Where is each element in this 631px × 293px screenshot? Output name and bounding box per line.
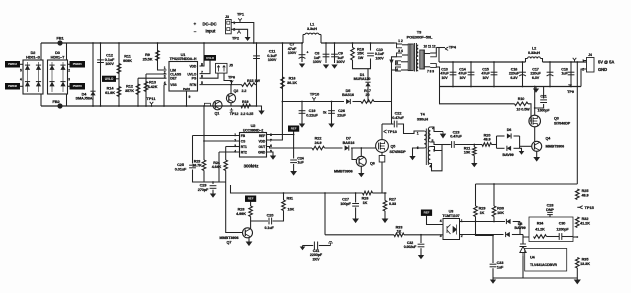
wire R23 column bbox=[203, 106, 205, 160]
D5 label bbox=[342, 89, 354, 97]
inductor L1 bbox=[305, 33, 319, 34]
svg-text:3: 3 bbox=[68, 78, 70, 82]
svg-text:PwPd: PwPd bbox=[183, 87, 190, 91]
ground below C8 bbox=[323, 65, 329, 69]
wire R28 to Q7 bbox=[250, 217, 252, 223]
U3 inner transistor and LED bbox=[447, 225, 457, 235]
wire T4 pin2 to ground bbox=[430, 127, 443, 132]
wire C25 bottom bbox=[193, 170, 205, 183]
UVLO net label bbox=[103, 76, 116, 81]
wire from bridge D3 to spare-2 box bbox=[68, 85, 71, 87]
svg-text:100V: 100V bbox=[336, 60, 345, 64]
wire T3 pin 3-4 to switch node bbox=[392, 57, 397, 124]
T3 secondary winding bar bbox=[420, 50, 425, 69]
resistor R24 bbox=[224, 160, 228, 171]
svg-text:10V: 10V bbox=[482, 76, 489, 80]
test point TP12 bars bbox=[230, 108, 239, 116]
wire U3 pin1 right bbox=[460, 221, 506, 223]
svg-text:MMBT3906: MMBT3906 bbox=[546, 145, 565, 149]
wire from pair-2 box to bridge D2 bbox=[20, 85, 24, 87]
wire T3 sec bracket up bbox=[435, 48, 437, 54]
junction R16 top bbox=[282, 42, 284, 44]
capacitor C31 Y-cap bbox=[314, 242, 317, 250]
junction R23 RTN bbox=[203, 105, 205, 107]
wire T4 pin6 to ground bbox=[413, 148, 425, 156]
junction TP11 bbox=[151, 105, 153, 107]
svg-text:0.33uH: 0.33uH bbox=[528, 51, 540, 55]
junction Q2 RTN wire bbox=[230, 84, 232, 86]
junction C14 top bbox=[470, 61, 472, 63]
R30 label bbox=[497, 207, 504, 215]
ground stub divider bbox=[576, 278, 578, 280]
svg-text:9: 9 bbox=[189, 95, 191, 99]
svg-text:1uF: 1uF bbox=[561, 72, 568, 76]
junction C16 bottom bbox=[522, 86, 524, 88]
svg-text:TLV431ACDBVR: TLV431ACDBVR bbox=[530, 263, 557, 267]
D8 label bbox=[514, 222, 525, 230]
svg-text:Q2: Q2 bbox=[234, 89, 239, 93]
secondary GND rail bbox=[440, 86, 582, 88]
junction C8 rail bbox=[325, 42, 327, 44]
junction C26 top bbox=[331, 101, 333, 103]
junction pad rail bbox=[186, 105, 188, 107]
svg-text:REF: REF bbox=[259, 134, 265, 138]
wire C11 bottom segment bbox=[256, 62, 258, 85]
junction C13 top bbox=[452, 61, 454, 63]
test point TP15 bbox=[580, 205, 595, 210]
wire U1 pin8 VDD up to rail bbox=[200, 43, 205, 66]
J3 pin 1 bbox=[233, 21, 235, 25]
ground end of RTN bbox=[258, 111, 264, 115]
R22 label bbox=[314, 137, 321, 145]
wire T4 pin4 loop bbox=[430, 151, 442, 171]
junction C10 rail bbox=[370, 42, 372, 44]
J3 pin 2 bbox=[233, 28, 235, 32]
wire R28 node to C20 bbox=[251, 220, 268, 222]
ground below U2 GND bbox=[270, 156, 276, 160]
svg-text:4: 4 bbox=[440, 219, 442, 223]
svg-text:TCMT1107: TCMT1107 bbox=[442, 214, 459, 218]
svg-text:Q1: Q1 bbox=[215, 112, 220, 116]
ground below C7 bbox=[299, 64, 305, 68]
C33 label bbox=[497, 261, 504, 269]
svg-text:POE300F–50L: POE300F–50L bbox=[407, 34, 433, 39]
ground below C9 bbox=[331, 65, 337, 69]
wire R24 bottom bbox=[225, 171, 227, 183]
transistor Q4 MMBT3906 bbox=[532, 141, 542, 151]
svg-text:0.47uF: 0.47uF bbox=[450, 135, 462, 139]
junction C33 top bbox=[492, 235, 494, 237]
diode D7 BAS16 bbox=[345, 145, 349, 150]
svg-text:PWR45: PWR45 bbox=[73, 62, 82, 66]
ground left of C31 bbox=[300, 247, 306, 251]
wire REF up to tag bbox=[293, 131, 295, 134]
ground below R27 bbox=[382, 219, 389, 224]
chassis symbol right of C31 bbox=[328, 242, 333, 246]
resistor R9 bbox=[156, 51, 160, 61]
wire D8 upper right bbox=[513, 221, 520, 223]
plus sign DC-DC input bbox=[194, 22, 197, 27]
svg-text:1K: 1K bbox=[397, 230, 402, 234]
wire U2 RT1 pin3 left bbox=[226, 146, 240, 148]
D6 label bbox=[507, 128, 512, 132]
resistor R34 bbox=[534, 235, 547, 239]
bias wire B segment 3 bbox=[374, 101, 392, 103]
wire T3 sec top down to 5V rail bbox=[438, 48, 440, 63]
svg-text:BAS16: BAS16 bbox=[342, 93, 354, 97]
junction W2 W1 bbox=[324, 192, 326, 194]
R11 label bbox=[123, 55, 132, 63]
C27 label bbox=[340, 198, 351, 206]
U3 pin 3 bbox=[440, 234, 442, 238]
wire C15 column bbox=[493, 62, 495, 87]
svg-text:U3: U3 bbox=[449, 210, 454, 214]
svg-text:TP11: TP11 bbox=[146, 96, 156, 101]
R21 label bbox=[464, 147, 471, 155]
top rail after L1 to T3 bbox=[321, 42, 395, 44]
wire C18 column bbox=[570, 62, 572, 87]
resistor R28 bbox=[249, 206, 253, 217]
svg-text:TP12: TP12 bbox=[230, 112, 239, 116]
U1 pin number 1 bbox=[164, 66, 166, 70]
J4 pin 1 bbox=[582, 59, 584, 63]
wire C16 column bbox=[522, 62, 524, 87]
junction divider mid bbox=[576, 236, 578, 238]
T3 pin bracket 3-4 bbox=[397, 53, 403, 57]
T4 value bbox=[417, 116, 429, 121]
wire R21 to ground bbox=[473, 156, 475, 164]
bridge D3 diode b bbox=[60, 65, 65, 70]
Q2 collector up bbox=[230, 85, 232, 94]
svg-text:0.22uF: 0.22uF bbox=[306, 113, 318, 117]
transistor Q7 MMBT3906 bbox=[243, 228, 253, 238]
wire R23 bottom bbox=[203, 171, 205, 183]
current sense wire W1 right bbox=[373, 192, 387, 194]
Q6 emitter to gate wire bbox=[360, 148, 362, 156]
U2 pin name OUT bbox=[258, 145, 265, 149]
R28 label bbox=[236, 208, 246, 216]
output label GND bbox=[598, 67, 607, 72]
J4 pin 2 bbox=[582, 67, 584, 71]
resistor R10 bbox=[515, 102, 529, 106]
capacitor C20 bbox=[269, 218, 272, 225]
header J3 body bbox=[226, 20, 232, 34]
TP15 stub bbox=[577, 206, 579, 208]
capacitor C23 bbox=[452, 141, 455, 148]
snubber join wire bbox=[353, 59, 371, 69]
resistor R32 bbox=[576, 217, 580, 228]
output connector J4 body bbox=[587, 58, 595, 73]
U2 pin name REF bbox=[259, 134, 265, 138]
wire R29 column bbox=[475, 184, 477, 206]
diode D1 MURA120 bbox=[365, 82, 370, 86]
wire C27 column bbox=[355, 193, 357, 203]
resistor R13 bbox=[144, 82, 148, 92]
U1 pin name LIM bbox=[170, 69, 176, 73]
svg-text:2: 2 bbox=[234, 138, 236, 142]
test point TP4 bbox=[445, 44, 457, 50]
R26 label bbox=[362, 197, 369, 205]
R13 label bbox=[148, 81, 158, 89]
svg-text:TP10: TP10 bbox=[310, 92, 320, 97]
svg-text:10 11 12: 10 11 12 bbox=[423, 45, 435, 49]
svg-text:61.9K: 61.9K bbox=[105, 91, 115, 95]
capacitor C18 bbox=[568, 72, 575, 75]
ground below Q4 bbox=[533, 157, 540, 162]
C11 label bbox=[267, 50, 277, 63]
capacitor C15 bbox=[491, 72, 498, 75]
wire J3 pin2 to ground bbox=[231, 29, 247, 37]
junction D4 top bbox=[92, 42, 94, 44]
U1 pin name UVLO bbox=[187, 73, 196, 77]
svg-text:100V: 100V bbox=[268, 58, 277, 62]
svg-text:BAV99: BAV99 bbox=[502, 153, 513, 157]
svg-text:SMAJ58A: SMAJ58A bbox=[76, 97, 93, 101]
U1 pin number 6 bbox=[201, 74, 203, 78]
svg-text:2.2 0.25: 2.2 0.25 bbox=[241, 112, 254, 116]
svg-text:TP13: TP13 bbox=[388, 129, 398, 134]
Q5 drain up bbox=[381, 124, 383, 140]
junction C17 bottom bbox=[549, 86, 551, 88]
svg-text:3 4: 3 4 bbox=[398, 49, 403, 53]
L2 value bbox=[528, 51, 540, 55]
svg-text:FB: FB bbox=[241, 134, 246, 138]
ground stub C33 bbox=[492, 278, 494, 280]
U2 pin number 3 bbox=[234, 144, 236, 148]
wire L2 risers bbox=[526, 59, 528, 63]
wire U1 pin5 RTN right bbox=[200, 84, 242, 86]
UVLO net label near U1 bbox=[205, 56, 216, 61]
wire from pair-1 box to bridge D2 bbox=[20, 63, 24, 65]
C7 label bbox=[288, 43, 297, 56]
T3 sec tap top bbox=[424, 53, 430, 55]
ferrite bead FB1 bbox=[57, 40, 62, 45]
wire R12 column bbox=[137, 78, 139, 106]
T3 core bbox=[414, 43, 416, 72]
wire C31 right bbox=[319, 245, 331, 247]
U1 pin name PG bbox=[192, 77, 197, 81]
T3 pin 5 label bbox=[396, 61, 398, 65]
capacitor C28 DNP bbox=[547, 212, 553, 214]
wire L2 risers right bbox=[541, 59, 543, 63]
U1 pin number 5 bbox=[201, 81, 203, 85]
C14 label bbox=[458, 68, 467, 80]
wire J3 pin1 to rail bbox=[231, 23, 254, 44]
svg-text:7 8 9: 7 8 9 bbox=[427, 70, 434, 74]
wire U1 pad 9 down to RTN bbox=[186, 91, 188, 106]
junction C17 top bbox=[549, 61, 551, 63]
U1 pin number 8 bbox=[201, 62, 203, 66]
U2 refdes bbox=[251, 123, 257, 128]
Q5 refdes bbox=[391, 145, 396, 149]
svg-text:49.9: 49.9 bbox=[483, 138, 490, 142]
U2 pin number 2 bbox=[234, 138, 236, 142]
wire U2 OUT pin6 right bbox=[267, 147, 313, 149]
junction R13 bottom bbox=[145, 105, 147, 107]
opto drive wire W2 right bbox=[404, 234, 443, 236]
svg-text:DET: DET bbox=[170, 77, 176, 81]
Q7 emitter down bbox=[248, 238, 250, 242]
R18 label bbox=[357, 48, 364, 60]
transistor Q1 bbox=[213, 101, 222, 110]
svg-text:0.33: 0.33 bbox=[389, 202, 396, 206]
svg-text:1: 1 bbox=[234, 133, 236, 137]
wire bridge D3 - output down bbox=[66, 94, 68, 106]
svg-text:1uF: 1uF bbox=[297, 161, 304, 165]
REF net label at U3 bbox=[421, 210, 431, 215]
inductor L2 bbox=[528, 57, 541, 59]
capacitor C21 bbox=[540, 100, 547, 103]
svg-text:10K: 10K bbox=[288, 208, 295, 212]
svg-text:0.01uF: 0.01uF bbox=[175, 167, 187, 171]
wire R20 to D6 node bbox=[492, 144, 497, 146]
svg-text:Q3: Q3 bbox=[554, 117, 559, 121]
svg-text:1200pF: 1200pF bbox=[556, 228, 569, 232]
resistor R35 bbox=[576, 258, 580, 269]
resistor R12 bbox=[136, 84, 140, 95]
wire W2 from W1 bbox=[324, 193, 326, 235]
svg-text:0.002uF: 0.002uF bbox=[404, 245, 417, 249]
junction R21 top bbox=[473, 144, 475, 146]
R29 label bbox=[479, 207, 486, 215]
U2 pin number 6 bbox=[270, 144, 272, 148]
svg-text:FB1: FB1 bbox=[56, 36, 64, 41]
U3 refdes bbox=[449, 210, 454, 214]
svg-text:J4: J4 bbox=[588, 53, 592, 57]
R27 label bbox=[389, 198, 396, 206]
diode D6b BAV99 bbox=[507, 146, 511, 151]
wire U4 cathode up bbox=[522, 235, 524, 245]
T4 primary winding bbox=[424, 131, 426, 148]
C16 label bbox=[509, 68, 520, 80]
diode D8 lower bbox=[506, 232, 510, 237]
wire C27 to ground bbox=[355, 207, 357, 218]
bridge D3 diode c bbox=[49, 82, 54, 87]
C15 label bbox=[481, 68, 490, 80]
capacitor C9 bbox=[331, 54, 338, 57]
resistor R23 bbox=[202, 160, 206, 171]
current sense wire W1 bbox=[231, 185, 363, 193]
T3 secondary winding arcs bbox=[416, 45, 418, 71]
C8 label bbox=[313, 52, 322, 65]
R19 label bbox=[242, 100, 249, 104]
svg-text:1000pF: 1000pF bbox=[538, 108, 551, 112]
svg-text:100V: 100V bbox=[375, 56, 384, 60]
ground at J3 pin2 bbox=[245, 37, 251, 41]
svg-text:HD01–S: HD01–S bbox=[26, 55, 40, 59]
R15 label bbox=[247, 79, 260, 83]
wire C28 stub bbox=[549, 215, 551, 217]
wire C8 column bbox=[325, 43, 327, 63]
T3 pins 10 11 12 bbox=[423, 45, 435, 49]
svg-text:3.3uH: 3.3uH bbox=[307, 27, 317, 31]
diode D6 bbox=[507, 133, 511, 138]
capacitor C19 bbox=[299, 111, 306, 114]
svg-text:6: 6 bbox=[270, 144, 272, 148]
svg-text:FB2: FB2 bbox=[52, 99, 60, 104]
U1 pin name RTN bbox=[190, 83, 197, 87]
header J5 body bbox=[216, 63, 228, 73]
REF net label at U2 bbox=[289, 126, 299, 131]
pin number 3 bbox=[68, 78, 70, 82]
svg-text:Q5: Q5 bbox=[391, 145, 396, 149]
D6 loop right vertical bbox=[519, 136, 521, 148]
R32 label bbox=[580, 217, 590, 225]
svg-text:L2: L2 bbox=[532, 47, 536, 51]
wire box left edge to U4 node bbox=[523, 235, 529, 238]
svg-text:R10: R10 bbox=[518, 97, 525, 101]
wire D4 column bbox=[92, 43, 94, 106]
primary RTN rail (wire A) bbox=[41, 105, 257, 107]
test point on 5V rail bbox=[573, 58, 577, 62]
C21 value bbox=[538, 108, 551, 112]
bridge D3 diode a bbox=[49, 65, 54, 70]
wire D1 to bias wire bbox=[367, 87, 369, 102]
U4 label box bbox=[525, 249, 567, 272]
svg-text:PWR12: PWR12 bbox=[8, 62, 17, 66]
R10 value bbox=[516, 108, 530, 112]
wire C24 column bbox=[293, 135, 295, 159]
U2 part number bbox=[243, 128, 264, 132]
test point TP6 bbox=[228, 75, 236, 85]
capacitor C29 bbox=[210, 186, 217, 189]
ground below C27 bbox=[352, 219, 359, 224]
MOSFET Q3 SI7848DP bbox=[529, 115, 541, 127]
switch node wire bbox=[382, 123, 394, 125]
svg-text:+: + bbox=[307, 51, 309, 55]
wire C17 column bbox=[549, 62, 551, 87]
junction C7 rail bbox=[301, 42, 303, 44]
Q4 emitter down bbox=[536, 151, 538, 157]
ground below C19 bbox=[299, 124, 305, 128]
Q5 source package pin box bbox=[379, 156, 385, 163]
Q2 label bbox=[234, 89, 239, 93]
svg-text:1K: 1K bbox=[363, 201, 368, 205]
U1 pin number 7 bbox=[201, 70, 203, 74]
wire U1 pin6 PG to J5 bbox=[200, 73, 219, 78]
C23 label bbox=[450, 131, 462, 139]
Q6 refdes bbox=[370, 162, 375, 166]
C20 label bbox=[267, 214, 274, 218]
T4 pin 2 bbox=[432, 126, 434, 130]
wire C23 to R20 bbox=[455, 144, 482, 146]
switch node arrow marker bbox=[389, 60, 393, 65]
5V output rail after L2 bbox=[543, 61, 587, 63]
resistor R15 bbox=[242, 83, 256, 87]
svg-text:D6: D6 bbox=[507, 128, 512, 132]
C13 label bbox=[440, 68, 449, 80]
svg-text:C30: C30 bbox=[559, 222, 566, 226]
transistor Q2 bbox=[226, 94, 235, 103]
svg-text:Q7: Q7 bbox=[227, 240, 232, 244]
J5 refdes bbox=[229, 64, 233, 68]
U3 part number bbox=[442, 214, 459, 218]
T3 secondary bracket top bbox=[430, 53, 436, 57]
svg-text:REF: REF bbox=[248, 197, 254, 201]
U2 pin number 1 bbox=[234, 133, 236, 137]
wire from bridge D3 to spare-1 box bbox=[68, 63, 71, 65]
svg-text:1uF: 1uF bbox=[497, 265, 504, 269]
svg-text:10.7K: 10.7K bbox=[192, 164, 202, 168]
svg-text:24.9: 24.9 bbox=[314, 141, 321, 145]
compensation network box bbox=[529, 217, 573, 242]
wire C21 bottom join bbox=[535, 104, 544, 108]
wire T4 pin5 right bbox=[430, 142, 442, 145]
C18 label bbox=[561, 68, 568, 76]
ground below Q7 bbox=[246, 242, 253, 247]
wire R35 to ground wire bbox=[576, 268, 578, 278]
bridge D2 diode d bbox=[36, 82, 41, 87]
